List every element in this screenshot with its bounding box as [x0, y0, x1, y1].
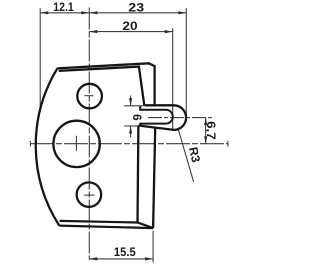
tongue inner slot [140, 106, 173, 125]
hole top [77, 84, 102, 109]
dimension 6,7 line [205, 118, 207, 144]
dimension 23 arrow left [89, 11, 97, 14]
dimension 15.5 arrow right [145, 257, 153, 260]
dimension 6 arrow up [129, 126, 132, 134]
dimension 6 extension top [124, 105, 144, 107]
tongue outline [138, 105, 186, 130]
dimension 20 line [89, 31, 172, 33]
svg-text:12.1: 12.1 [53, 0, 74, 14]
dimension 6 line top [130, 96, 132, 106]
bottom edge upper with chamfer [60, 221, 154, 228]
centerline tongue axis [148, 117, 212, 119]
dimension 15.5 line [89, 258, 153, 260]
svg-text:23: 23 [128, 1, 144, 15]
centerline end tick left [29, 141, 31, 147]
dimension 20 arrow left [89, 30, 97, 33]
dimension 23 line [89, 12, 186, 14]
centerline vertical through holes [88, 8, 90, 260]
svg-text:6,7: 6,7 [204, 121, 218, 140]
radius leader R3 [178, 128, 194, 182]
extension line right (20) [172, 28, 174, 131]
center tick top hole [84, 95, 93, 97]
dimension 12.1 line [40, 12, 89, 14]
dimension 6,7 arrow up [204, 118, 207, 126]
hole bottom [77, 182, 102, 207]
centerline end tick right [227, 141, 229, 147]
svg-text:6: 6 [130, 114, 144, 121]
right edge inner vertical [136, 126, 139, 223]
center tick big hole [75, 136, 77, 151]
extension line right (23) [185, 8, 187, 117]
dimension 15.5 arrow left [89, 257, 97, 260]
extension line left (12.1) [39, 8, 41, 112]
dimension 6 arrow down [129, 98, 132, 106]
part outline: top edge lower with slant [59, 67, 145, 106]
part outline: top edge upper with right peak [57, 63, 154, 105]
hole big [53, 121, 99, 167]
dimension 12.1 arrow left [40, 11, 48, 14]
part outline: left edge arc [36, 68, 60, 225]
dimension 6,7 arrow down [204, 136, 207, 144]
center tick bottom hole [84, 194, 94, 196]
centerline horizontal through big hole [30, 143, 229, 145]
dimension 12.1 arrow right [81, 11, 89, 14]
svg-text:20: 20 [122, 19, 138, 33]
dimension 6 extension bottom [124, 125, 138, 127]
dimension 6 line bottom [130, 126, 132, 138]
right edge outer vertical [153, 128, 155, 228]
extension line right (15.5) [152, 231, 154, 263]
dimension 23 arrow right [178, 11, 186, 14]
dimension 20 arrow right [165, 30, 173, 33]
bottom edge lower [59, 226, 153, 229]
svg-text:15.5: 15.5 [114, 245, 136, 259]
